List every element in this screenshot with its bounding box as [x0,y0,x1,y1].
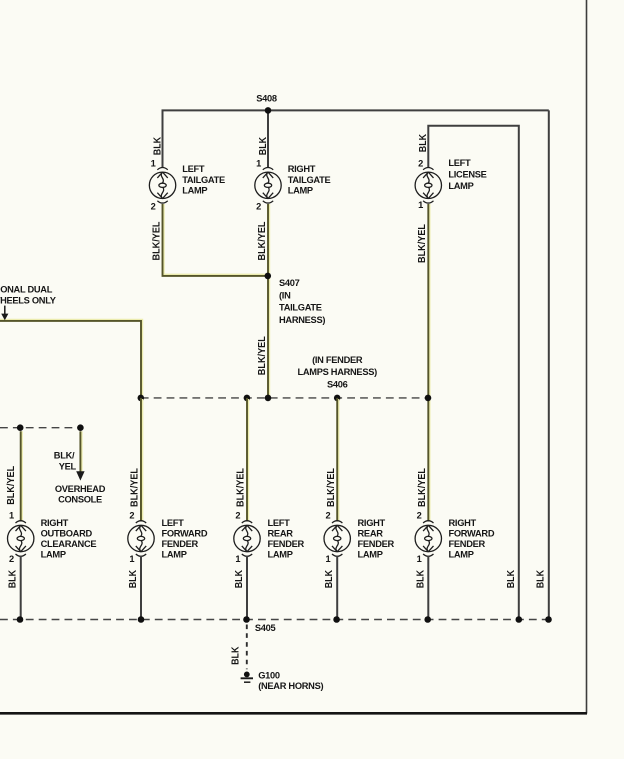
svg-text:BLK: BLK [128,569,139,588]
lamp LEFT FORWARD FENDER LAMP [128,521,154,557]
svg-text:2: 2 [151,201,156,211]
junction S405 at x=336.6 [333,616,340,623]
svg-text:BLK: BLK [506,569,517,588]
svg-text:OVERHEAD: OVERHEAD [55,484,106,494]
junction S405 at x=427.7 [424,616,431,623]
arrow from OPTIONAL label to wire [4,306,6,314]
svg-text:BLK: BLK [152,136,163,155]
svg-text:S408: S408 [256,94,277,104]
svg-text:1: 1 [326,554,331,564]
dashed BLK wire S405 to G100 [246,625,248,670]
svg-text:2: 2 [256,201,261,211]
svg-text:1: 1 [151,159,156,169]
svg-text:(IN FENDER: (IN FENDER [312,355,363,365]
svg-text:FENDER: FENDER [268,539,305,549]
svg-text:BLK: BLK [324,569,335,588]
svg-text:S405: S405 [255,623,276,633]
svg-text:WHEELS ONLY: WHEELS ONLY [0,296,57,306]
page border right edge [586,0,588,714]
wire BLK ground lead lamp at x=20.7 [20,556,22,620]
svg-text:BLK: BLK [231,646,242,665]
svg-text:FENDER: FENDER [358,539,395,549]
svg-text:BLK: BLK [415,569,426,588]
lamp LEFT LICENSE LAMP [415,168,441,204]
svg-text:(NEAR HORNS): (NEAR HORNS) [258,681,323,691]
svg-text:LEFT: LEFT [162,518,185,528]
svg-text:LAMP: LAMP [41,549,66,559]
svg-text:REAR: REAR [268,528,294,538]
svg-text:REAR: REAR [358,528,384,538]
svg-text:G100: G100 [258,670,280,680]
svg-text:RIGHT: RIGHT [449,518,477,528]
wire BLK/YEL S406 to left forward fender (overlap) [141,399,143,522]
arrowhead to OVERHEAD CONSOLE [76,471,84,480]
svg-text:BLK/YEL: BLK/YEL [326,468,337,507]
svg-text:CLEARANCE: CLEARANCE [41,539,97,549]
svg-text:BLK/YEL: BLK/YEL [257,222,268,261]
lamp RIGHT REAR FENDER LAMP [324,521,350,557]
wire BLK/YEL overhead console feed [80,431,82,471]
wire BLK/YEL optional dual wheels feed [0,320,142,522]
wire BLK/YEL S407 to S406 [268,277,270,398]
svg-text:FENDER: FENDER [449,539,486,549]
svg-text:TAILGATE: TAILGATE [288,175,331,185]
svg-text:LAMP: LAMP [449,549,474,559]
junction at clearance lamp drop [17,424,24,431]
wire BLK ground lead lamp at x=141 [140,556,142,620]
dashed stub to optional clearance lamp + overhead console [0,427,80,429]
svg-text:OUTBOARD: OUTBOARD [41,528,93,538]
svg-text:2: 2 [235,510,240,520]
svg-text:1: 1 [235,554,240,564]
svg-text:BLK/YEL: BLK/YEL [6,466,17,505]
svg-text:1: 1 [256,159,261,169]
wire BLK/YEL right tailgate to S407 [268,204,270,276]
svg-text:LICENSE: LICENSE [448,170,486,180]
junction at overhead console drop [77,424,84,431]
wire BLK/YEL clearance lamp feed [21,431,23,521]
wire BLK ground lead lamp at x=428.3 [427,556,429,620]
splice junction S407 [265,273,272,280]
junction S405 at x=518.8 [516,616,523,623]
svg-text:BLK/YEL: BLK/YEL [236,468,247,507]
junction S406 at S407 column [265,395,272,402]
svg-text:2: 2 [129,510,134,520]
svg-text:FORWARD: FORWARD [162,528,208,538]
svg-text:BLK/YEL: BLK/YEL [417,224,428,263]
svg-text:FENDER: FENDER [162,539,199,549]
svg-text:LAMP: LAMP [288,185,313,195]
wire BLK ground lead lamp at x=337.2 [336,556,338,620]
svg-text:1: 1 [129,554,134,564]
svg-text:1: 1 [417,554,422,564]
svg-text:2: 2 [326,510,331,520]
wire BLK left license lamp BLK elbow down to S405 [428,126,519,620]
wire BLK ground lead lamp at x=247 [246,556,248,620]
svg-text:2: 2 [417,510,422,520]
wire BLK/YEL S406 to right rear fender [337,399,339,522]
svg-text:HARNESS): HARNESS) [279,315,325,325]
page border bottom edge [0,712,587,715]
svg-text:RIGHT: RIGHT [358,518,386,528]
splice S405 dashed ground bus [0,619,549,621]
lamp RIGHT FORWARD FENDER LAMP [415,521,441,557]
svg-text:BLK: BLK [418,133,429,152]
svg-text:BLK: BLK [234,569,245,588]
svg-text:2: 2 [418,159,423,169]
junction S406 left [138,395,145,402]
svg-text:LAMP: LAMP [358,549,383,559]
junction S406 at left rear fender drop [244,395,251,402]
svg-text:2: 2 [9,554,14,564]
svg-text:1: 1 [418,200,423,210]
svg-text:BLK/YEL: BLK/YEL [257,336,268,375]
svg-text:TAILGATE: TAILGATE [182,175,225,185]
wire BLK/YEL S406 to left rear fender [247,399,249,522]
lamp RIGHT TAILGATE LAMP [255,168,281,204]
svg-text:RIGHT: RIGHT [41,518,69,528]
junction S405 at x=141 [138,616,145,623]
ground symbol G100 [244,672,250,678]
svg-text:LEFT: LEFT [448,158,471,168]
svg-text:LAMP: LAMP [162,549,187,559]
splice S406 dashed bus (in fender lamps harness) [141,397,428,399]
svg-text:FORWARD: FORWARD [449,528,495,538]
svg-text:1: 1 [9,510,14,520]
svg-text:BLK/YEL: BLK/YEL [417,468,428,507]
wire BLK/YEL license/right fwd fender BLK/YEL column [428,204,430,522]
svg-text:(IN: (IN [279,290,291,300]
svg-text:LAMP: LAMP [268,549,293,559]
svg-text:LEFT: LEFT [182,164,205,174]
junction S406 at right rear fender drop [334,395,341,402]
svg-text:BLK/YEL: BLK/YEL [130,468,141,507]
junction S405 at x=548.5 [545,616,552,623]
svg-text:BLK: BLK [536,569,547,588]
svg-text:S407: S407 [279,278,300,288]
svg-text:S406: S406 [327,380,348,390]
svg-text:LEFT: LEFT [268,518,291,528]
svg-text:RIGHT: RIGHT [288,164,316,174]
svg-text:BLK: BLK [8,569,19,588]
svg-text:TAILGATE: TAILGATE [279,303,322,313]
junction S405 at x=246.5 [243,616,250,623]
svg-text:CONSOLE: CONSOLE [58,495,102,505]
junction S406 right [425,395,432,402]
svg-text:YEL: YEL [59,461,77,471]
svg-text:LAMP: LAMP [182,185,207,195]
lamp RIGHT OUTBOARD CLEARANCE LAMP [8,521,34,557]
wire BLK S408 ground bus + drops + right vertical to S405 [162,110,549,619]
lamp LEFT REAR FENDER LAMP [234,521,260,557]
svg-text:BLK/YEL: BLK/YEL [151,222,162,261]
svg-text:BLK/: BLK/ [54,450,75,460]
junction S405 at x=20 [17,616,24,623]
svg-text:OPTIONAL DUAL: OPTIONAL DUAL [0,284,53,294]
svg-text:LAMP: LAMP [448,181,473,191]
svg-text:LAMPS HARNESS): LAMPS HARNESS) [297,367,377,377]
splice junction S408 [265,107,272,114]
lamp LEFT TAILGATE LAMP [149,168,175,204]
svg-text:BLK: BLK [258,136,269,155]
wire BLK/YEL left tailgate to S407 [164,204,268,275]
